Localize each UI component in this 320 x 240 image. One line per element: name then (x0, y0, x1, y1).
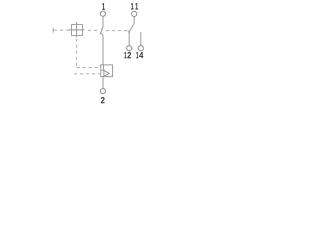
wire auxiliary contact to terminal 12 (128, 32, 130, 46)
terminal pin label 1 (102, 3, 105, 10)
mechanism box (square with cross) (69, 22, 85, 37)
terminal 11 circle (132, 11, 137, 16)
thermal overload release F1 box (101, 65, 113, 77)
mechanical linkage dashed wire actuator to mechanism box (54, 29, 69, 31)
wire main contact to thermal release (102, 36, 104, 65)
terminal pin label 2 (101, 97, 105, 103)
wire terminal 11 to auxiliary contact (133, 17, 135, 24)
terminal 14 circle (138, 46, 143, 51)
thermal release bimetal anchor line (101, 69, 105, 71)
terminal 2 circle (100, 89, 105, 94)
wire terminal 1 to main contact (102, 16, 104, 26)
terminal pin label 14 (136, 52, 143, 58)
terminal 1 circle (100, 11, 105, 16)
mechanical linkage dashed wire mechanism down (76, 39, 78, 68)
main contact blade (100, 27, 103, 37)
terminal 12 circle (127, 46, 132, 51)
actuator end bar (52, 28, 54, 33)
wire auxiliary contact to terminal 14 (140, 32, 142, 45)
mechanical linkage dashed wire main contact to auxiliary contact (106, 31, 129, 33)
thermal release trip arrow (104, 71, 109, 77)
auxiliary changeover contact blade (129, 23, 134, 33)
mechanical linkage dashed wire mechanism to main contact (88, 29, 97, 31)
thermal release internal conductor (103, 65, 105, 70)
mechanical linkage dashed wire to thermal release lower (74, 73, 101, 75)
terminal pin label 11 (131, 3, 138, 10)
terminal pin label 12 (124, 52, 131, 58)
wire thermal release to terminal 2 (102, 77, 104, 89)
mechanical linkage dashed wire to thermal release upper (77, 67, 101, 69)
